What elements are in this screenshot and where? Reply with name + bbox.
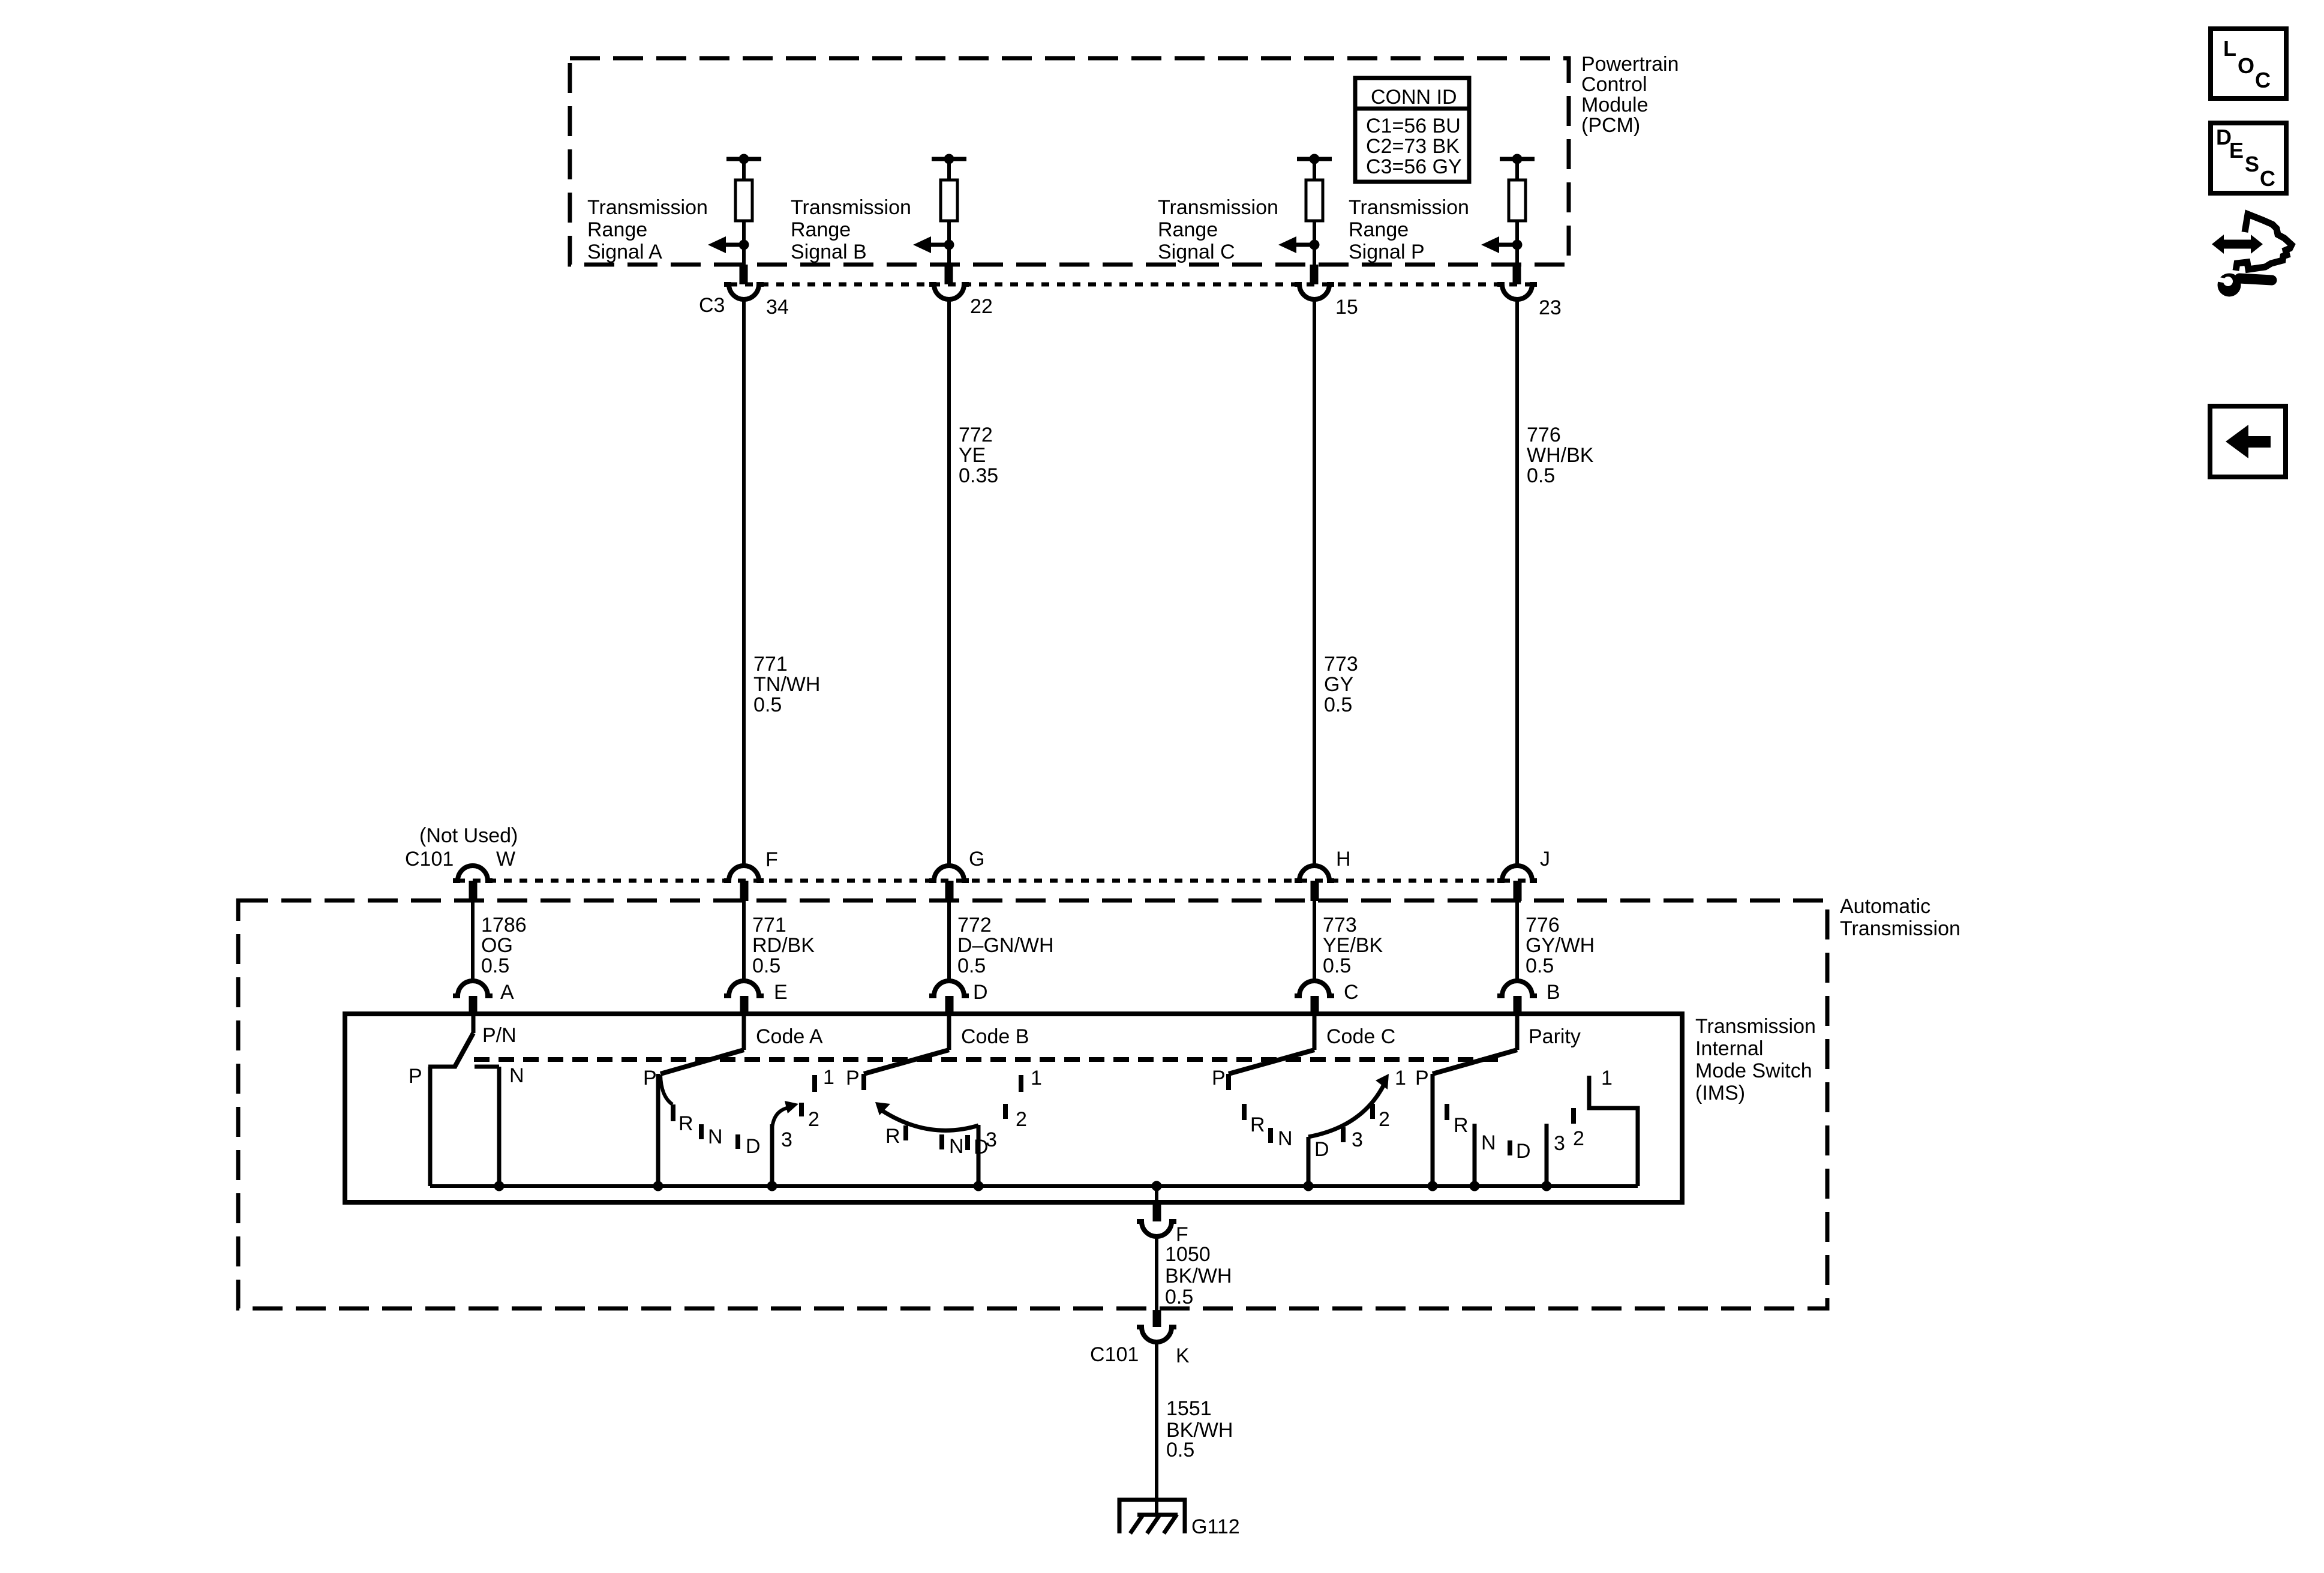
switch Parity lever (1433, 1050, 1517, 1074)
svg-text:C101: C101 (405, 848, 454, 870)
svg-text:N: N (949, 1135, 964, 1158)
resistor (pull-up, Signal B) (941, 159, 957, 265)
ground G112 symbol (1119, 1500, 1185, 1533)
signal tap arrow (Signal B) (913, 236, 954, 253)
connector pin stub C101 W (469, 881, 478, 901)
Code C label 3 (1352, 1128, 1363, 1151)
connector cup C3 (Signal A) (724, 284, 764, 299)
connector cup IMS F (1137, 1221, 1176, 1236)
Parity label N (1481, 1131, 1496, 1154)
Code C wiper arc with arrowhead (1308, 1074, 1389, 1137)
svg-text:(IMS): (IMS) (1695, 1082, 1745, 1104)
svg-text:1786: 1786 (481, 914, 527, 936)
CONN ID table (1355, 78, 1469, 182)
connector pin stub IMS A (469, 996, 478, 1016)
svg-text:E: E (2229, 138, 2244, 163)
pin letter A (500, 981, 514, 1004)
Parity position-1 path (1589, 1076, 1638, 1186)
Code C 2 tick (1370, 1104, 1375, 1119)
signal tap arrow (Signal P) (1481, 236, 1523, 253)
Parity label 3 (1554, 1132, 1565, 1155)
svg-text:S: S (2245, 152, 2259, 176)
svg-text:0.5: 0.5 (957, 954, 986, 977)
svg-text:1: 1 (1601, 1067, 1613, 1089)
svg-text:OG: OG (481, 934, 513, 957)
Code A R tick (671, 1104, 675, 1121)
Parity P contact to bus (1431, 1074, 1435, 1186)
svg-text:C: C (1344, 981, 1359, 1004)
svg-text:773: 773 (1324, 653, 1358, 676)
svg-text:0.5: 0.5 (1324, 694, 1352, 716)
Code B label P (846, 1067, 860, 1089)
label Transmission Range Signal A (587, 196, 708, 263)
Code A label N (708, 1125, 723, 1148)
connector pin stub C101 K (1153, 1310, 1161, 1327)
pin letter E (774, 981, 788, 1004)
svg-text:773: 773 (1323, 914, 1357, 936)
svg-text:23: 23 (1539, 296, 1562, 319)
svg-text:3: 3 (1352, 1128, 1363, 1151)
connector dome IMS pin E (724, 981, 764, 996)
junction dot Parity N (1470, 1181, 1480, 1191)
svg-text:772: 772 (959, 424, 993, 446)
svg-text:3: 3 (986, 1128, 997, 1151)
svg-text:P: P (846, 1067, 860, 1089)
Code C label R (1250, 1113, 1265, 1136)
svg-text:3: 3 (781, 1128, 792, 1151)
label Automatic Transmission (1840, 895, 1960, 940)
Code C P tick (1226, 1074, 1231, 1090)
PCM label (1581, 53, 1679, 137)
switch P/N input wire (472, 1014, 476, 1033)
label C101 (bottom) (1090, 1343, 1139, 1366)
switch Code B label (961, 1025, 1029, 1048)
Code A curve to position 2 (772, 1101, 798, 1130)
switch Code A lever (660, 1050, 744, 1074)
label Transmission Range Signal C (1158, 196, 1278, 263)
switch Parity label (1529, 1025, 1581, 1048)
connector dome C101 pin H (1295, 866, 1334, 881)
svg-text:C3: C3 (699, 294, 725, 317)
svg-text:Code A: Code A (756, 1025, 823, 1048)
svg-text:R: R (678, 1112, 693, 1135)
PCM dashed box (570, 58, 1569, 265)
Code A 1 tick (812, 1075, 817, 1092)
svg-text:H: H (1336, 848, 1351, 870)
svg-text:Signal A: Signal A (587, 241, 662, 263)
svg-text:GY/WH: GY/WH (1526, 934, 1595, 957)
pin letter F (765, 848, 778, 871)
signal tap arrow (Signal A) (708, 236, 749, 253)
Code B label D (974, 1136, 989, 1158)
Parity label 2 (1573, 1127, 1584, 1150)
svg-text:0.5: 0.5 (1166, 1439, 1194, 1461)
svg-text:0.35: 0.35 (959, 464, 998, 487)
svg-text:D–GN/WH: D–GN/WH (957, 934, 1054, 957)
Code A label 2 (808, 1108, 819, 1131)
svg-text:D: D (973, 981, 988, 1004)
connector pin stub C101 H (1311, 881, 1319, 901)
junction dot Code C (1304, 1181, 1314, 1191)
svg-text:2: 2 (1016, 1108, 1027, 1131)
wire label 1551 BK/WH 0.5 (1166, 1397, 1233, 1461)
svg-text:776: 776 (1527, 424, 1561, 446)
Code B P tick (861, 1074, 866, 1090)
svg-text:G112: G112 (1191, 1515, 1240, 1538)
resistor (pull-up, Signal A) (735, 159, 752, 265)
svg-text:A: A (500, 981, 514, 1004)
svg-text:0.5: 0.5 (1165, 1286, 1193, 1308)
svg-text:(PCM): (PCM) (1581, 114, 1640, 137)
pin letter B (1547, 981, 1560, 1004)
wire label 1050 BK/WH 0.5 (1165, 1243, 1232, 1308)
PCM internal node T-bar (Signal C) (1297, 154, 1332, 164)
svg-text:15: 15 (1335, 296, 1358, 319)
Parity N contact to bus (1473, 1124, 1477, 1186)
Parity label R (1454, 1114, 1469, 1137)
Code B R tick (903, 1125, 908, 1140)
connector dome C101 pin G (929, 866, 969, 881)
signal tap arrow (Signal C) (1278, 236, 1320, 253)
svg-text:RD/BK: RD/BK (752, 934, 815, 957)
pin letter C (1344, 981, 1359, 1004)
switch Code C label (1326, 1025, 1395, 1048)
Code B label 2 (1016, 1108, 1027, 1131)
contact label N (509, 1064, 524, 1087)
svg-text:772: 772 (957, 914, 992, 936)
pin letter G (969, 848, 984, 870)
svg-text:34: 34 (766, 296, 789, 319)
svg-text:Parity: Parity (1529, 1025, 1581, 1048)
svg-text:Range: Range (791, 218, 851, 241)
svg-text:N: N (1481, 1131, 1496, 1154)
svg-text:TN/WH: TN/WH (753, 673, 820, 696)
connector cup C3 (Signal C) (1295, 284, 1334, 299)
svg-text:0.5: 0.5 (481, 954, 509, 977)
wire 773 circuit PCM to C101 (1313, 299, 1316, 867)
Code A position-3 line to bus (770, 1124, 774, 1186)
svg-text:R: R (885, 1125, 900, 1148)
svg-text:1: 1 (1031, 1067, 1042, 1089)
wire label 773 YE/BK 0.5 (1323, 914, 1383, 977)
junction dot P/N to bus (494, 1181, 505, 1191)
wire label 771 TN/WH 0.5 (753, 653, 820, 716)
Parity label P (1415, 1067, 1429, 1089)
svg-text:2: 2 (808, 1108, 819, 1131)
switch Code A wiper hook (660, 1075, 672, 1104)
connector pin stub C101 F (740, 881, 749, 901)
svg-text:P: P (1212, 1067, 1226, 1089)
Code B 1 tick (1019, 1075, 1023, 1092)
resistor (pull-up, Signal C) (1306, 159, 1323, 265)
svg-text:P: P (643, 1067, 657, 1089)
svg-text:P: P (409, 1065, 422, 1088)
Code C R tick (1242, 1104, 1247, 1120)
wire label 771 RD/BK 0.5 (752, 914, 815, 977)
pin letter W (496, 848, 515, 870)
Parity D tick (1508, 1140, 1512, 1155)
pin letter K (1176, 1344, 1190, 1367)
Code A label 3 (781, 1128, 792, 1151)
pin letter D (973, 981, 988, 1004)
Code B position-3 line to bus (977, 1125, 981, 1186)
svg-text:Automatic: Automatic (1840, 895, 1930, 918)
connector cup C101 K (1137, 1327, 1176, 1342)
svg-text:Transmission: Transmission (791, 196, 911, 219)
svg-text:Transmission: Transmission (587, 196, 708, 219)
svg-text:C3=56 GY: C3=56 GY (1366, 155, 1462, 178)
svg-text:2: 2 (1379, 1108, 1390, 1131)
svg-text:GY: GY (1324, 673, 1353, 696)
svg-text:K: K (1176, 1344, 1190, 1367)
wire 772b C101 to IMS connector (947, 901, 951, 982)
svg-text:0.5: 0.5 (1526, 954, 1554, 977)
wire label 772 YE 0.35 (959, 424, 998, 487)
Code B D tick (965, 1135, 970, 1150)
junction dot Code A 3 (767, 1181, 777, 1191)
connector dome C101 pin F (724, 866, 764, 881)
Code C label 1 (1395, 1067, 1406, 1089)
Code A N tick (699, 1124, 704, 1139)
label Transmission Range Signal P (1349, 196, 1469, 263)
Code B 2 tick (1003, 1104, 1008, 1119)
connector pin (PCM C3, Signal C) (1310, 265, 1319, 284)
svg-text:N: N (708, 1125, 723, 1148)
svg-text:BK/WH: BK/WH (1165, 1265, 1232, 1287)
svg-text:YE: YE (959, 444, 986, 467)
svg-text:(Not Used): (Not Used) (419, 824, 518, 847)
label G112 (1191, 1515, 1240, 1538)
svg-text:771: 771 (752, 914, 786, 936)
switch Code A input wire (742, 1014, 746, 1050)
junction dot Code A P (653, 1181, 663, 1191)
Parity R tick (1445, 1104, 1449, 1120)
icon DESC box (2211, 123, 2286, 193)
Code B label R (885, 1125, 900, 1148)
pin letter J (1540, 848, 1550, 870)
svg-text:1551: 1551 (1166, 1397, 1212, 1420)
resistor (pull-up, Signal P) (1509, 159, 1526, 265)
switch P/N lever (454, 1033, 473, 1068)
connector dome IMS pin D (929, 981, 969, 996)
PCM internal node T-bar (Signal A) (726, 154, 761, 164)
switch P/N P contact (428, 1067, 456, 1186)
wire 1786 C101 to IMS connector (471, 901, 475, 982)
pin letter F (IMS output) (1176, 1223, 1188, 1246)
svg-text:Signal C: Signal C (1158, 241, 1235, 263)
svg-text:O: O (2238, 53, 2254, 78)
Parity 3 contact to bus (1545, 1124, 1549, 1186)
svg-text:D: D (1314, 1138, 1329, 1161)
wire 771 circuit PCM to C101 (742, 299, 746, 867)
Code A label D (746, 1135, 761, 1158)
Code A D tick (735, 1134, 740, 1149)
connector C3 dotted interconnect line (729, 283, 1533, 287)
connector pin stub IMS F (1153, 1202, 1161, 1221)
svg-text:0.5: 0.5 (752, 954, 780, 977)
svg-text:N: N (1278, 1127, 1293, 1150)
switch P/N N contact (475, 1067, 499, 1186)
wire label 1786 OG 0.5 (481, 914, 527, 977)
switch Code C lever (1229, 1050, 1314, 1074)
junction dot Parity P (1428, 1181, 1438, 1191)
switch P/N label (482, 1024, 517, 1047)
contact label P (409, 1065, 422, 1088)
wire label 776 WH/BK 0.5 (1527, 424, 1594, 487)
wire 776b C101 to IMS connector (1515, 901, 1519, 982)
svg-text:P: P (1415, 1067, 1429, 1089)
label (Not Used) (419, 824, 518, 847)
svg-text:0.5: 0.5 (753, 694, 782, 716)
connector pin stub C101 J (1514, 881, 1522, 901)
pin number 22 (970, 295, 993, 318)
Code A label P (643, 1067, 657, 1089)
Code C N tick (1268, 1128, 1273, 1143)
Code C 3 tick (1341, 1127, 1346, 1142)
wire 772 circuit PCM to C101 (947, 299, 951, 867)
svg-text:G: G (969, 848, 984, 870)
connector pin stub IMS C (1311, 996, 1319, 1016)
Code B label N (949, 1135, 964, 1158)
svg-text:Transmission: Transmission (1840, 917, 1960, 940)
icon diagnostic wrench with arrows (2212, 214, 2292, 297)
connector dome IMS pin C (1295, 981, 1334, 996)
svg-text:C1=56 BU: C1=56 BU (1366, 115, 1461, 137)
wire K to ground (1155, 1341, 1158, 1515)
svg-text:Range: Range (1158, 218, 1218, 241)
svg-text:D: D (746, 1135, 761, 1158)
svg-text:CONN ID: CONN ID (1371, 86, 1457, 109)
svg-text:P/N: P/N (482, 1024, 517, 1047)
Code C position line to bus (1307, 1137, 1311, 1186)
label C101 (405, 848, 454, 870)
Code C label N (1278, 1127, 1293, 1150)
connector dome C101 pin J (1497, 866, 1537, 881)
wire 773b C101 to IMS connector (1313, 901, 1316, 982)
connector pin stub C101 G (945, 881, 954, 901)
Code A label R (678, 1112, 693, 1135)
switch Code B lever (864, 1050, 949, 1074)
PCM internal node T-bar (Signal P) (1500, 154, 1535, 164)
label C3 (699, 294, 725, 317)
Code A label 1 (823, 1066, 834, 1089)
IMS solid box (345, 1014, 1682, 1202)
wire bus to IMS box bottom (1155, 1186, 1158, 1202)
wire label 772 D–GN/WH 0.5 (957, 914, 1054, 977)
junction dot Code B 3 (974, 1181, 984, 1191)
label Transmission Range Signal B (791, 196, 911, 263)
connector cup C3 (Signal B) (929, 284, 969, 299)
svg-text:1: 1 (1395, 1067, 1406, 1089)
Code B N tick (939, 1134, 944, 1149)
svg-text:Mode Switch: Mode Switch (1695, 1059, 1812, 1082)
connector pin stub IMS B (1514, 996, 1522, 1016)
connector dome C101 pin W (453, 866, 493, 881)
svg-text:1050: 1050 (1165, 1243, 1211, 1266)
Code A 2 tick (799, 1103, 804, 1116)
svg-text:R: R (1454, 1114, 1469, 1137)
Code B label 1 (1031, 1067, 1042, 1089)
svg-text:Control: Control (1581, 73, 1647, 96)
label Transmission Internal Mode Switch (IMS) (1695, 1015, 1816, 1104)
svg-text:Code C: Code C (1326, 1025, 1395, 1048)
icon back arrow box (2210, 406, 2286, 477)
icon LOC box (2211, 29, 2286, 98)
connector pin (PCM C3, Signal B) (945, 265, 953, 284)
pin number 23 (1539, 296, 1562, 319)
IMS common bus (430, 1184, 1638, 1188)
connector dome IMS pin A (453, 981, 493, 996)
wire F to C101 K (1155, 1236, 1158, 1310)
connector C101 dotted interconnect line (457, 879, 1533, 883)
Code C label P (1212, 1067, 1226, 1089)
svg-text:Powertrain: Powertrain (1581, 53, 1679, 76)
wire 771b C101 to IMS connector (742, 901, 746, 982)
svg-text:W: W (496, 848, 515, 870)
svg-text:1: 1 (823, 1066, 834, 1089)
svg-text:0.5: 0.5 (1527, 464, 1555, 487)
Code B wiper arc with arrowhead (875, 1102, 978, 1130)
svg-text:2: 2 (1573, 1127, 1584, 1150)
pin letter H (1336, 848, 1351, 870)
switch Code A P contact to bus (656, 1074, 660, 1186)
svg-text:F: F (765, 848, 778, 871)
Parity label 1 (1601, 1067, 1613, 1089)
svg-text:Module: Module (1581, 94, 1649, 116)
svg-text:C: C (2255, 68, 2271, 92)
svg-text:N: N (509, 1064, 524, 1087)
svg-text:C2=73 BK: C2=73 BK (1366, 135, 1460, 158)
Code C label 2 (1379, 1108, 1390, 1131)
svg-text:L: L (2223, 36, 2236, 61)
svg-text:Transmission: Transmission (1695, 1015, 1816, 1038)
svg-text:WH/BK: WH/BK (1527, 444, 1594, 467)
svg-text:Code B: Code B (961, 1025, 1029, 1048)
svg-text:Range: Range (1349, 218, 1409, 241)
svg-text:Transmission: Transmission (1349, 196, 1469, 219)
svg-text:3: 3 (1554, 1132, 1565, 1155)
pin number 34 (766, 296, 789, 319)
svg-text:D: D (1516, 1140, 1531, 1163)
svg-text:Internal: Internal (1695, 1037, 1763, 1060)
svg-text:YE/BK: YE/BK (1323, 934, 1383, 957)
connector pin (PCM C3, Signal P) (1513, 265, 1521, 284)
connector pin stub IMS E (740, 996, 749, 1016)
switch Code A label (756, 1025, 823, 1048)
Automatic Transmission dashed box (238, 900, 1827, 1308)
svg-text:B: B (1547, 981, 1560, 1004)
switch Code B input wire (947, 1014, 951, 1050)
junction dot bus to F output (1152, 1181, 1162, 1191)
connector dome IMS pin B (1497, 981, 1537, 996)
pin number 15 (1335, 296, 1358, 319)
Parity 2 tick (1571, 1108, 1576, 1124)
switch Code C input wire (1313, 1014, 1317, 1050)
svg-text:C101: C101 (1090, 1343, 1139, 1366)
svg-text:776: 776 (1526, 914, 1560, 936)
Code B label 3 (986, 1128, 997, 1151)
wire 776 circuit PCM to C101 (1515, 299, 1519, 867)
switch Parity input wire (1515, 1014, 1520, 1050)
wire label 776 GY/WH 0.5 (1526, 914, 1595, 977)
svg-text:Signal B: Signal B (791, 241, 867, 263)
connector cup C3 (Signal P) (1497, 284, 1537, 299)
PCM internal node T-bar (Signal B) (932, 154, 966, 164)
IMS mechanical linkage dotted line (474, 1057, 1500, 1062)
connector pin stub IMS D (945, 996, 954, 1016)
svg-text:Signal P: Signal P (1349, 241, 1425, 263)
svg-text:Transmission: Transmission (1158, 196, 1278, 219)
